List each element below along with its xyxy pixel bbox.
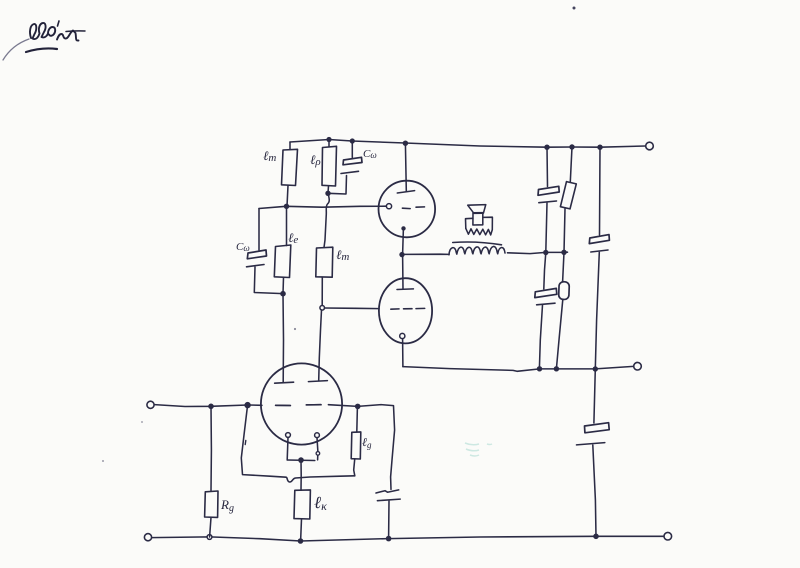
svg-text:Cω: Cω [236, 241, 250, 253]
svg-text:Cω: Cω [363, 148, 377, 160]
